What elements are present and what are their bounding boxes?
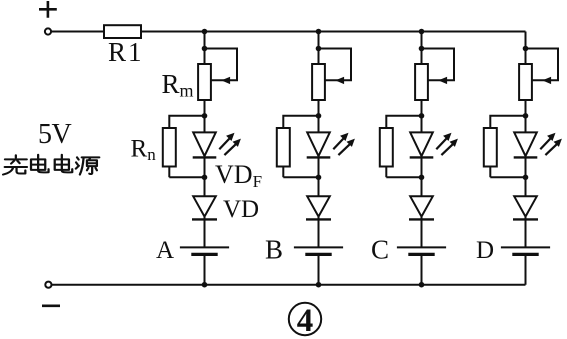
svg-text:VDF: VDF [215, 160, 262, 191]
svg-text:B: B [265, 235, 283, 265]
svg-text:R1: R1 [108, 37, 144, 67]
svg-text:4: 4 [297, 303, 314, 339]
svg-text:A: A [156, 237, 174, 264]
svg-text:5V: 5V [38, 119, 72, 150]
svg-text:D: D [476, 237, 494, 264]
svg-text:C: C [371, 235, 389, 265]
svg-text:Rm: Rm [162, 69, 194, 101]
svg-text:Rn: Rn [131, 136, 157, 165]
svg-text:VD: VD [223, 196, 259, 223]
